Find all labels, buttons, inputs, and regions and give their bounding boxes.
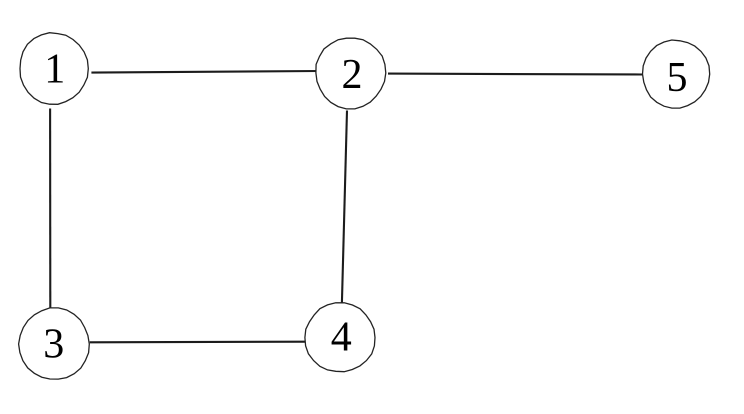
- wire edge 1-2: [91, 71, 319, 73]
- node 2 circle: [316, 38, 386, 109]
- node 4 circle: [305, 303, 375, 372]
- wire edge 2-5: [388, 73, 642, 76]
- svg-text:3: 3: [43, 321, 64, 367]
- wire edge 1-3: [49, 109, 51, 312]
- svg-text:4: 4: [331, 315, 352, 361]
- wire edge 2-4: [342, 111, 347, 308]
- svg-text:1: 1: [44, 46, 65, 92]
- node 5 circle: [643, 40, 710, 108]
- node 1 circle: [20, 33, 88, 105]
- svg-text:2: 2: [342, 52, 363, 98]
- node 3 circle: [19, 308, 90, 379]
- svg-text:5: 5: [667, 55, 688, 101]
- wire edge 3-4: [90, 341, 306, 344]
